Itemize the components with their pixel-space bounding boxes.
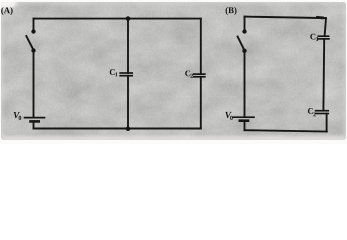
wire: B top rail ink thickening near corner bbox=[318, 16, 323, 19]
label C2 (B) bbox=[308, 108, 316, 116]
wire: A right branch lower (C2 to bottom rail) bbox=[200, 77, 202, 129]
capacitor C1 (B) bbox=[318, 36, 329, 39]
wire: A left branch middle (switch to battery) bbox=[33, 51, 35, 117]
label C1 (B) bbox=[310, 34, 318, 41]
switch S (A) bbox=[26, 29, 35, 52]
label C2 (A) bbox=[185, 71, 193, 78]
wire: C1 branch lower (A) bbox=[127, 76, 129, 129]
label C1 (A) bbox=[110, 69, 118, 76]
wire: B right branch lower (C2 to bottom rail) bbox=[326, 114, 328, 132]
wire: A left branch lower (battery to bottom rail) bbox=[33, 122, 35, 129]
wire: B left branch lower (battery to bottom rail) bbox=[244, 121, 246, 130]
panel label (A) bbox=[1, 7, 12, 15]
node: A top junction bbox=[126, 16, 131, 21]
capacitor C2 (B) bbox=[316, 111, 329, 114]
wire: A top rail bbox=[34, 18, 201, 20]
switch S (B) bbox=[238, 29, 247, 53]
wire: A left branch upper (rail to switch) bbox=[33, 19, 35, 30]
wire: A bottom rail bbox=[34, 128, 201, 130]
battery V0 (A) bbox=[25, 118, 45, 122]
capacitor C2 (A) bbox=[194, 74, 205, 77]
capacitor C1 (A) bbox=[120, 73, 132, 76]
wire: C1 branch upper (A) bbox=[127, 19, 129, 73]
label V0 (B) bbox=[225, 112, 232, 120]
wire: B right branch upper (rail to C1) bbox=[325, 18, 326, 36]
panel label (B) bbox=[226, 7, 237, 15]
scanned paper background bbox=[0, 0, 347, 144]
wire: A right branch upper (rail to C2) bbox=[200, 19, 202, 74]
label V0 (A) bbox=[14, 112, 22, 120]
node: A bottom junction bbox=[126, 127, 131, 132]
wire: B left branch middle (switch to battery) bbox=[244, 51, 246, 116]
wire: B top rail bbox=[245, 17, 327, 19]
wire: B right branch middle (C1 to C2) bbox=[322, 39, 325, 111]
wire: B left branch upper (rail to switch) bbox=[244, 17, 246, 30]
wire: B bottom rail bbox=[245, 130, 327, 131]
battery V0 (B) bbox=[234, 117, 255, 121]
